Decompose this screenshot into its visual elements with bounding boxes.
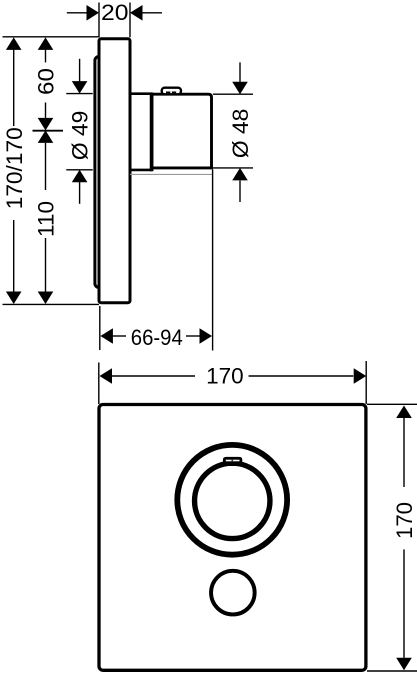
dimension 170/170: dimension line with arrows bbox=[6, 37, 22, 304]
dimension 20: dimension lines with arrows bbox=[67, 5, 162, 21]
svg-text:170/170: 170/170 bbox=[2, 127, 27, 209]
dimension Ø48: value label bbox=[228, 109, 253, 159]
escutcheon plate (front view, 170x170) bbox=[99, 405, 366, 671]
escutcheon plate (side profile, 20 mm thick) bbox=[99, 39, 130, 303]
dimension 170 width: dimension line with arrows bbox=[100, 368, 367, 384]
dimension 66-94: dimension line with arrows bbox=[100, 328, 212, 344]
dimension 20: value label bbox=[101, 0, 129, 25]
svg-text:170: 170 bbox=[392, 502, 417, 539]
dimension Ø49 (sleeve diameter): dimension line, ticks and arrows bbox=[66, 59, 92, 204]
svg-text:60: 60 bbox=[34, 68, 59, 95]
dimension 170 height: dimension line with arrows bbox=[396, 406, 412, 671]
dimension 110: value label bbox=[34, 201, 59, 237]
svg-text:Ø 48: Ø 48 bbox=[228, 109, 253, 159]
dimension 170 width: value label bbox=[206, 364, 244, 389]
dimension 170/170 (plate height): extension lines bbox=[3, 37, 100, 305]
dimension 20 (plate thickness): extension lines bbox=[99, 3, 130, 38]
thermostat handle inner circle bbox=[195, 463, 270, 538]
svg-text:110: 110 bbox=[34, 201, 59, 237]
handle axis center tick bbox=[33, 130, 64, 132]
dimension 110 (handle axis to bottom edge): dimension line with arrows bbox=[38, 130, 54, 304]
handle knob (Ø48, side profile) with back bar bbox=[152, 93, 212, 172]
dimension 170/170: value label bbox=[2, 127, 27, 209]
svg-text:66-94: 66-94 bbox=[131, 325, 183, 350]
dimension 170 width: extension lines bbox=[99, 361, 366, 404]
dimension 66-94 (installation depth): extension lines bbox=[100, 170, 213, 351]
shadow line under handle bbox=[130, 173, 212, 175]
flange (concealed basic-set plate behind escutcheon, side view) bbox=[95, 57, 115, 288]
grip tab marker (front view) bbox=[223, 457, 242, 466]
svg-text:20: 20 bbox=[101, 0, 129, 25]
svg-text:170: 170 bbox=[206, 364, 244, 389]
dimension Ø49: value label bbox=[68, 111, 93, 160]
thermostat handle outer ring bbox=[177, 445, 287, 555]
shut-off/volume button circle bbox=[211, 571, 255, 615]
sleeve bottom line (Ø49 sleeve) bbox=[130, 169, 152, 172]
sleeve top line (Ø49 sleeve) bbox=[130, 92, 152, 95]
dimension Ø48 (handle diameter): dimension line, ticks and arrows bbox=[213, 62, 253, 202]
grip tab marker on handle top (side view) bbox=[162, 88, 181, 95]
dimension 170 height: value label bbox=[392, 502, 417, 539]
svg-text:Ø 49: Ø 49 bbox=[68, 111, 93, 160]
dimension 60: value label bbox=[34, 68, 59, 95]
dimension 170 height: extension lines bbox=[367, 404, 417, 671]
dimension 66-94: value label bbox=[131, 325, 183, 350]
dimension 60 (top edge to handle axis): dimension line with arrows bbox=[38, 37, 54, 130]
